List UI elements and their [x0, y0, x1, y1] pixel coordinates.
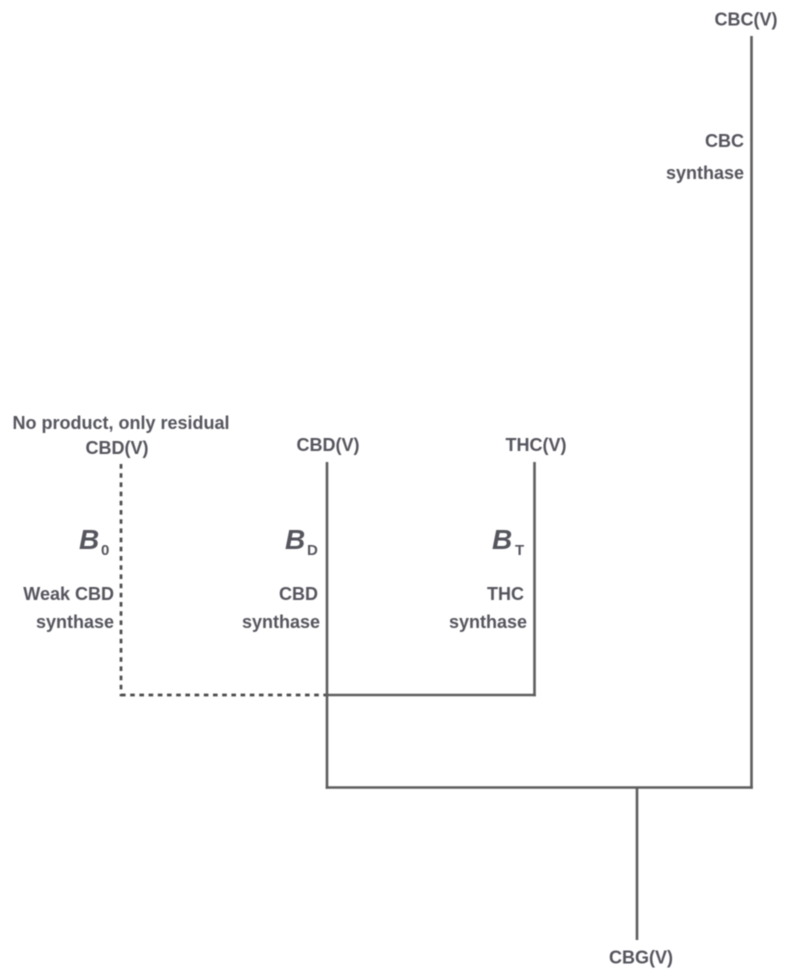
wire: dashed horizontal branch	[121, 694, 327, 697]
svg-text:CBG(V): CBG(V)	[609, 948, 673, 968]
wire: solid horizontal joining CBD and THC branches	[326, 694, 536, 697]
svg-text:CBD(V): CBD(V)	[86, 438, 149, 458]
svg-text:synthase: synthase	[242, 612, 320, 632]
wire: THC vertical branch	[533, 462, 536, 696]
wire: dashed vertical branch (weak CBD synthase)	[120, 464, 123, 696]
svg-text:CBC(V): CBC(V)	[715, 10, 778, 30]
svg-text:D: D	[307, 542, 318, 559]
svg-text:B: B	[285, 524, 305, 555]
svg-text:CBC: CBC	[705, 131, 744, 151]
svg-text:CBD(V): CBD(V)	[297, 435, 360, 455]
svg-text:synthase: synthase	[449, 612, 527, 632]
svg-text:CBD: CBD	[279, 584, 318, 604]
svg-text:THC(V): THC(V)	[506, 435, 567, 455]
svg-text:B: B	[492, 524, 512, 555]
svg-text:THC: THC	[487, 584, 524, 604]
wire: CBC vertical branch	[750, 36, 753, 789]
svg-text:No product, only residual: No product, only residual	[12, 413, 229, 433]
svg-text:0: 0	[101, 542, 109, 559]
wire: CBG stem	[636, 788, 639, 941]
svg-text:synthase: synthase	[36, 612, 114, 632]
wire: main horizontal branch	[326, 786, 753, 789]
svg-text:B: B	[79, 524, 99, 555]
svg-text:synthase: synthase	[666, 163, 744, 183]
svg-text:T: T	[515, 542, 524, 559]
wire: CBD vertical branch	[326, 462, 329, 789]
svg-text:Weak CBD: Weak CBD	[23, 584, 114, 604]
